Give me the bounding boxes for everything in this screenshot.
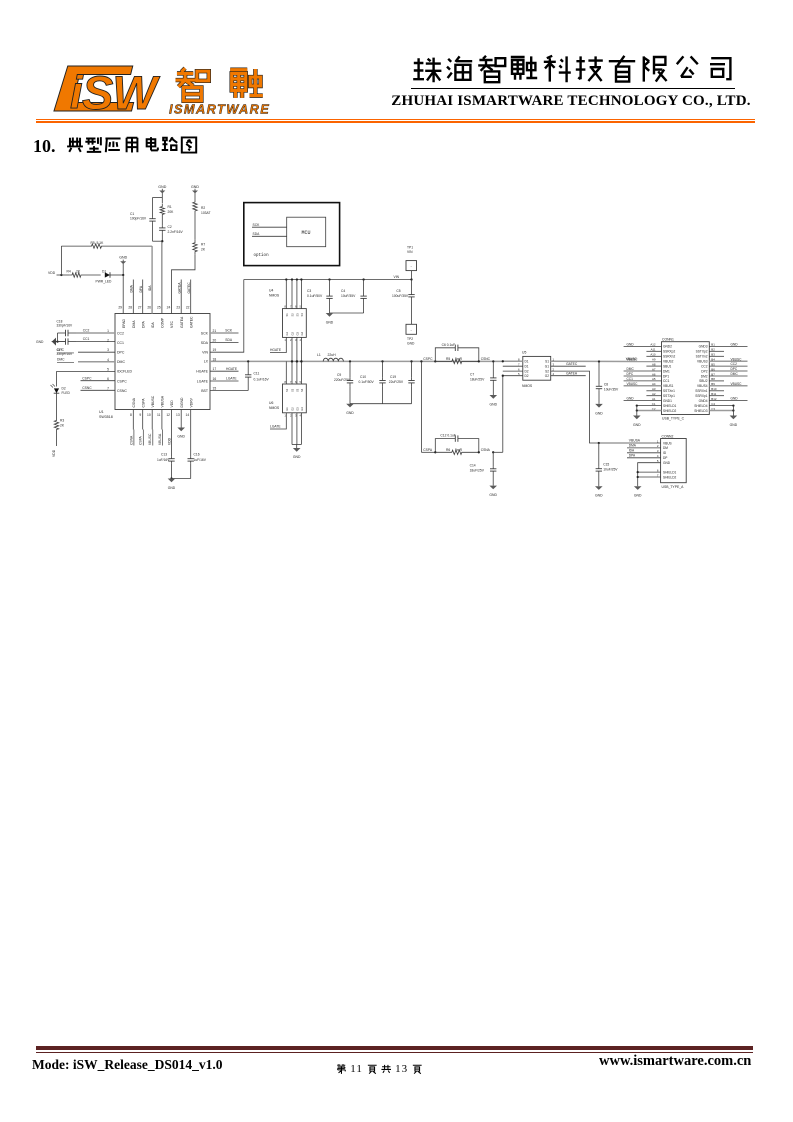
svg-text:CSPC: CSPC [117, 379, 127, 383]
ground GND (U6 sources) [296, 445, 298, 449]
svg-text:-: - [411, 327, 413, 332]
net stub GATEA (vertical) [180, 280, 182, 314]
node CC junction [52, 341, 65, 343]
svg-text:28: 28 [128, 306, 132, 310]
net stub LGATE [210, 380, 239, 382]
svg-text:SDA: SDA [225, 338, 233, 342]
svg-text:VDD: VDD [48, 271, 56, 275]
svg-text:R1: R1 [168, 205, 172, 209]
wire IDCFLED [57, 370, 116, 372]
svg-text:SHIELD3: SHIELD3 [694, 409, 708, 413]
svg-text:SBU1: SBU1 [663, 364, 672, 368]
svg-text:C4: C4 [341, 289, 345, 293]
net stub GATEC (vertical) [190, 280, 192, 314]
svg-text:CC2: CC2 [731, 362, 738, 366]
svg-text:GATEA: GATEA [178, 282, 182, 294]
svg-text:DPC: DPC [117, 351, 125, 355]
wire U6 drain 2 [291, 361, 293, 384]
capacitor C19 22uF/25V [410, 360, 412, 362]
svg-text:2.2nF/16V: 2.2nF/16V [168, 230, 184, 234]
svg-text:CSPC: CSPC [82, 376, 92, 380]
svg-text:R5: R5 [446, 357, 450, 361]
svg-text:G3: G3 [295, 331, 299, 335]
svg-text:LX: LX [204, 360, 209, 364]
svg-text:DM2: DM2 [701, 374, 708, 378]
svg-text:14: 14 [186, 413, 190, 417]
svg-text:S1: S1 [545, 360, 549, 364]
wire COMP to pin 25 [161, 241, 163, 313]
svg-text:S4: S4 [300, 388, 304, 392]
wire VDD pin12 [171, 410, 173, 457]
ground GND (C14) [489, 486, 497, 490]
svg-text:NMOS: NMOS [269, 294, 280, 298]
svg-text:16: 16 [213, 377, 217, 381]
svg-text:TP1: TP1 [407, 246, 413, 250]
svg-text:GND: GND [731, 343, 739, 347]
svg-text:7: 7 [518, 362, 520, 366]
svg-text:CC1: CC1 [117, 341, 124, 345]
wire U5 D1 bus [503, 360, 523, 362]
svg-text:5: 5 [518, 372, 520, 376]
svg-text:C14: C14 [470, 463, 476, 467]
svg-text:GND4: GND4 [699, 399, 708, 403]
svg-text:DMA: DMA [132, 320, 136, 328]
svg-text:D1: D1 [525, 360, 529, 364]
svg-text:C13: C13 [161, 452, 167, 456]
capacitor C10 0.1uF/50V [381, 360, 383, 362]
capacitor C4 10uF/35V [362, 278, 364, 280]
svg-text:VBUSC: VBUSC [148, 433, 152, 445]
svg-text:SSTXn1: SSTXn1 [663, 389, 675, 393]
svg-text:GND: GND [407, 341, 415, 345]
svg-text:23: 23 [176, 306, 180, 310]
svg-text:S1: S1 [285, 313, 289, 317]
svg-text:C15: C15 [603, 463, 609, 467]
svg-text:VDD: VDD [170, 400, 174, 408]
svg-text:VBUS1: VBUS1 [663, 384, 674, 388]
svg-text:CSNC: CSNC [117, 389, 127, 393]
svg-text:IDA: IDA [629, 448, 635, 452]
svg-text:S2: S2 [545, 369, 549, 373]
svg-text:22uF/25V: 22uF/25V [389, 380, 404, 384]
svg-text:CSNC: CSNC [481, 357, 491, 361]
capacitor C14 18uF/25V [492, 451, 494, 453]
svg-text:18uF/25V: 18uF/25V [470, 468, 485, 472]
svg-text:USB_TYPE_A: USB_TYPE_A [662, 485, 685, 489]
svg-text:U1: U1 [99, 410, 104, 414]
svg-text:MCU: MCU [301, 230, 310, 236]
svg-text:NMOS: NMOS [522, 384, 533, 388]
svg-text:CONN1: CONN1 [662, 337, 674, 341]
svg-text:25: 25 [157, 306, 161, 310]
wire U5 S1 out (VBUSC, gray) [551, 360, 662, 362]
svg-text:DMC: DMC [627, 367, 635, 371]
svg-text:6: 6 [518, 367, 520, 371]
svg-text:G1: G1 [285, 407, 289, 411]
svg-text:CSPA: CSPA [141, 398, 145, 408]
svg-text:GND3: GND3 [699, 345, 708, 349]
svg-text:SSRXp2: SSRXp2 [663, 350, 675, 354]
wire CC1 [76, 341, 115, 343]
ground GND (CONN2) [634, 486, 642, 490]
MCU block [287, 217, 326, 247]
svg-text:22: 22 [186, 306, 190, 310]
svg-text:CSPC: CSPC [423, 357, 433, 361]
svg-text:10uF/35V: 10uF/35V [604, 387, 619, 391]
svg-text:BST: BST [201, 389, 209, 393]
svg-text:GND: GND [36, 340, 44, 344]
svg-text:5: 5 [107, 367, 109, 371]
svg-text:VBUS3: VBUS3 [697, 360, 708, 364]
svg-text:GND: GND [490, 402, 498, 406]
net stub SCK (gray) [210, 332, 239, 334]
ground DGND pin13 [180, 410, 182, 428]
svg-text:103AT: 103AT [201, 211, 210, 215]
resistor R7 2K [193, 240, 197, 255]
svg-text:DP2: DP2 [701, 369, 707, 373]
wire CC2 (gray) [76, 332, 115, 334]
svg-text:29: 29 [118, 306, 122, 310]
resistor R6 5mR [434, 451, 436, 453]
svg-text:CC2: CC2 [701, 364, 708, 368]
svg-text:C16: C16 [194, 452, 200, 456]
svg-text:VBUSA: VBUSA [161, 395, 165, 407]
svg-text:VBUSC: VBUSC [731, 382, 743, 386]
svg-text:L1: L1 [317, 353, 321, 357]
svg-text:GATEA: GATEA [180, 316, 184, 328]
svg-text:VBUS4: VBUS4 [697, 384, 708, 388]
svg-text:S2: S2 [291, 313, 295, 317]
svg-text:DMA: DMA [130, 284, 134, 292]
svg-text:D2: D2 [525, 374, 529, 378]
node VDD junction [60, 274, 62, 276]
svg-text:G2: G2 [291, 407, 295, 411]
svg-text:SSTXp1: SSTXp1 [663, 394, 675, 398]
svg-text:C11: C11 [254, 372, 260, 376]
svg-text:SCK: SCK [253, 223, 261, 227]
svg-text:GND: GND [177, 435, 185, 439]
svg-text:0.1uF/16V: 0.1uF/16V [254, 377, 270, 381]
svg-text:IDCFLED: IDCFLED [117, 370, 132, 374]
svg-text:S3: S3 [295, 388, 299, 392]
svg-text:20: 20 [213, 339, 217, 343]
ground GND (C15) [595, 486, 603, 490]
svg-text:GATEC: GATEC [566, 362, 578, 366]
ground GND (C3/C4) [330, 312, 364, 314]
svg-text:SHIELD4: SHIELD4 [694, 404, 708, 408]
svg-text:C19: C19 [390, 375, 396, 379]
svg-text:3: 3 [107, 348, 109, 352]
node EPAD junction [122, 274, 124, 276]
net stub DPA (vertical) [142, 280, 144, 314]
svg-text:VIN: VIN [394, 275, 400, 279]
wire VIN rail [244, 279, 412, 281]
svg-text:USB_TYPE_C: USB_TYPE_C [662, 417, 685, 421]
net stub DMA (vertical) [132, 280, 134, 314]
svg-text:SSRXn1: SSRXn1 [695, 389, 707, 393]
capacitor C15 10uF/25V [598, 442, 600, 444]
net stub IDA [627, 452, 661, 454]
svg-text:GND: GND [346, 411, 354, 415]
ground GND (CONN1 shields left) [636, 404, 638, 406]
svg-text:DPA: DPA [141, 321, 145, 328]
svg-text:SDA: SDA [201, 341, 209, 345]
svg-text:10: 10 [147, 413, 151, 417]
ground GND (C9) [346, 404, 354, 408]
svg-text:GND: GND [627, 397, 635, 401]
svg-text:U4: U4 [269, 289, 273, 293]
svg-text:C10: C10 [360, 375, 366, 379]
svg-text:DP1: DP1 [663, 374, 669, 378]
svg-text:GATEC: GATEC [187, 282, 191, 294]
svg-text:DMC: DMC [117, 360, 125, 364]
svg-text:SDA: SDA [253, 232, 261, 236]
wire U6 gate to LGATE [270, 413, 286, 429]
wire IDA (gray) [151, 246, 153, 313]
svg-text:option: option [254, 253, 270, 258]
svg-text:IDA: IDA [148, 285, 152, 291]
wire U6 sources to GND [291, 413, 293, 445]
svg-text:LGATE: LGATE [270, 425, 281, 429]
svg-text:CSNA: CSNA [129, 435, 133, 445]
svg-text:20K: 20K [168, 210, 175, 214]
svg-text:NTC: NTC [170, 320, 174, 328]
svg-text:DMC: DMC [731, 372, 739, 376]
svg-text:SSTXn2: SSTXn2 [696, 355, 708, 359]
svg-text:GND: GND [730, 423, 738, 427]
svg-text:VDD: VDD [52, 449, 56, 457]
svg-text:VBUSC: VBUSC [731, 357, 743, 361]
svg-text:CSNA: CSNA [481, 448, 491, 452]
svg-text:U5: U5 [522, 350, 526, 354]
svg-text:GND: GND [731, 397, 739, 401]
svg-text:DPA: DPA [629, 453, 636, 457]
ground GND (C13/C16) [172, 478, 191, 480]
svg-text:G1: G1 [285, 331, 289, 335]
ground GND (C8) [595, 404, 603, 408]
svg-text:2: 2 [553, 367, 555, 371]
wire U4 drain 1 [285, 280, 287, 309]
svg-text:100pF/16V: 100pF/16V [130, 217, 147, 221]
ground GND (C7) [490, 395, 498, 399]
node branch to CSPA row [420, 360, 422, 362]
svg-text:2K: 2K [201, 247, 206, 251]
svg-text:220uF/25V: 220uF/25V [334, 378, 351, 382]
wire EPAD [122, 275, 124, 314]
svg-text:IDA: IDA [151, 322, 155, 328]
svg-text:R3: R3 [60, 419, 64, 423]
svg-text:VIN: VIN [407, 250, 413, 254]
svg-text:SHIELD1: SHIELD1 [663, 470, 677, 474]
svg-text:DPC: DPC [731, 367, 738, 371]
svg-text:C3: C3 [307, 289, 311, 293]
svg-text:DPC: DPC [627, 372, 634, 376]
svg-text:GND: GND [191, 185, 199, 189]
svg-text:ID: ID [663, 451, 667, 455]
svg-text:26: 26 [147, 306, 151, 310]
svg-text:C2: C2 [168, 225, 172, 229]
svg-text:11: 11 [157, 413, 161, 417]
net stub DMA [627, 447, 661, 449]
svg-text:GND: GND [634, 494, 642, 498]
svg-text:D1: D1 [525, 365, 529, 369]
svg-text:VBUSC: VBUSC [151, 395, 155, 407]
svg-text:U6: U6 [269, 401, 273, 405]
svg-text:VDD: VDD [167, 437, 171, 445]
svg-text:CC2: CC2 [117, 331, 124, 335]
capacitor C9 220uF/25V [349, 360, 351, 362]
wire CONN2 GND [638, 463, 661, 487]
svg-text:DPA: DPA [139, 285, 143, 292]
svg-text:R6: R6 [446, 448, 450, 452]
svg-text:FLED: FLED [62, 391, 71, 395]
svg-text:19: 19 [213, 348, 217, 352]
svg-text:VIN: VIN [202, 351, 208, 355]
net stub SDA [210, 342, 239, 344]
svg-text:HGATE: HGATE [270, 348, 282, 352]
svg-text:100uF/35V: 100uF/35V [392, 294, 409, 298]
svg-text:8: 8 [130, 413, 132, 417]
svg-text:10uF/25V: 10uF/25V [603, 468, 618, 472]
svg-text:LGATE: LGATE [197, 379, 209, 383]
wire U4 sources to LX [291, 337, 293, 361]
wire NTC [172, 255, 196, 314]
node COMP junction [153, 240, 163, 242]
wire U5 D2 bus [503, 370, 523, 372]
svg-text:VBUS: VBUS [663, 441, 672, 445]
svg-text:VDRV: VDRV [189, 397, 193, 407]
svg-text:SHIELD1: SHIELD1 [663, 404, 677, 408]
svg-text:R7: R7 [201, 243, 205, 247]
svg-text:C1: C1 [130, 212, 134, 216]
svg-text:1uF/16V: 1uF/16V [194, 458, 207, 462]
svg-text:S2: S2 [291, 388, 295, 392]
svg-text:-: - [411, 264, 413, 269]
net stub GATEA [551, 375, 586, 377]
svg-text:13: 13 [176, 413, 180, 417]
svg-text:1uF/16V: 1uF/16V [157, 458, 170, 462]
svg-text:VBUSC: VBUSC [627, 382, 639, 386]
svg-text:SW3518: SW3518 [99, 415, 113, 419]
svg-text:18uF/25V: 18uF/25V [470, 377, 485, 381]
svg-text:GND: GND [663, 461, 671, 465]
svg-text:C12 0.1uF: C12 0.1uF [440, 434, 455, 438]
wire VDRV pin14 [190, 410, 192, 457]
svg-text:SBU2: SBU2 [699, 379, 708, 383]
resistor R1 20K [161, 198, 163, 204]
capacitor C2 2.2nF/16V [161, 218, 163, 226]
wire U4 drain 2 [291, 280, 293, 309]
svg-text:COMP: COMP [161, 317, 165, 328]
svg-text:SCK: SCK [201, 331, 209, 335]
wire U4 gate to HGATE [270, 337, 286, 352]
wire U4 drain 4 [300, 280, 302, 309]
wire CONN2 shields [638, 471, 661, 473]
svg-text:22uH: 22uH [328, 353, 337, 357]
svg-text:G1: G1 [545, 365, 549, 369]
svg-text:VBUSA: VBUSA [629, 439, 641, 443]
svg-text:A9: A9 [652, 358, 656, 362]
wire U6 drain 4 [300, 361, 302, 384]
svg-text:S1: S1 [285, 388, 289, 392]
test point TP2 GND [406, 324, 417, 334]
wire SDA to MCU [252, 235, 287, 237]
svg-text:DM: DM [663, 446, 668, 450]
svg-text:C9: C9 [337, 373, 341, 377]
capacitor C8 10uF/35V [598, 360, 600, 362]
svg-text:C6 0.1uF: C6 0.1uF [442, 343, 456, 347]
svg-text:SSRXn2: SSRXn2 [663, 355, 675, 359]
svg-text:CC1: CC1 [627, 377, 634, 381]
wire U4 drain 3 [296, 280, 298, 309]
svg-text:G4: G4 [300, 407, 304, 411]
svg-text:GND: GND [168, 486, 176, 490]
svg-text:VBUSA: VBUSA [158, 433, 162, 445]
svg-text:CSPA: CSPA [423, 448, 433, 452]
svg-text:PWR_LED: PWR_LED [96, 279, 113, 283]
svg-text:GND: GND [595, 411, 603, 415]
svg-text:TP2: TP2 [407, 337, 413, 341]
svg-text:S3: S3 [295, 313, 299, 317]
svg-text:S4: S4 [300, 313, 304, 317]
svg-text:SSTXp2: SSTXp2 [696, 350, 708, 354]
svg-text:G2: G2 [291, 331, 295, 335]
svg-text:G2: G2 [545, 374, 549, 378]
wire U6 drain 1 [285, 361, 287, 384]
wire U5 S2 down to VBUSA [551, 371, 599, 443]
svg-text:SHIELD2: SHIELD2 [663, 475, 677, 479]
wire VIN up to rail [210, 280, 244, 353]
svg-text:NMOS: NMOS [269, 406, 280, 410]
svg-text:DP: DP [663, 456, 667, 460]
net stubs CSNA CSPA VBUSC VBUSA (vertical labels) [132, 410, 134, 430]
wire VBUSA to CONN2 [599, 442, 661, 444]
svg-text:G3: G3 [295, 407, 299, 411]
svg-text:DPC: DPC [57, 348, 65, 352]
svg-text:R2: R2 [201, 206, 205, 210]
MCU option box [244, 203, 340, 266]
svg-text:C7: C7 [470, 372, 474, 376]
wire LX rail (gray) [210, 360, 503, 362]
capacitor C3 0.1uF/50V [328, 278, 330, 280]
svg-text:DMC: DMC [57, 358, 65, 362]
wire BST [210, 390, 248, 392]
svg-text:GND: GND [119, 256, 127, 260]
svg-text:12: 12 [166, 413, 170, 417]
svg-text:VBUS2: VBUS2 [663, 360, 674, 364]
svg-text:GND: GND [627, 343, 635, 347]
svg-text:GND: GND [595, 494, 603, 498]
svg-text:24: 24 [167, 306, 171, 310]
svg-text:CSNA: CSNA [132, 397, 136, 407]
svg-text:D2: D2 [525, 369, 529, 373]
svg-text:G4: G4 [300, 331, 304, 335]
net stub GATEC [551, 365, 586, 367]
net stub HGATE [210, 370, 239, 372]
svg-text:EPAD: EPAD [122, 318, 126, 328]
resistor R5 5mR [434, 360, 436, 362]
svg-text:C5: C5 [396, 289, 400, 293]
IC U1 SW3518 [115, 314, 210, 410]
svg-text:9: 9 [139, 413, 141, 417]
svg-text:GND1: GND1 [663, 399, 672, 403]
svg-text:0.1uF/50V: 0.1uF/50V [307, 294, 323, 298]
svg-text:SSRXp1: SSRXp1 [695, 394, 707, 398]
capacitor C11 0.1uF/16V [247, 360, 249, 362]
svg-text:GATEA: GATEA [566, 371, 578, 375]
wire [153, 197, 163, 199]
svg-text:GND: GND [326, 321, 334, 325]
